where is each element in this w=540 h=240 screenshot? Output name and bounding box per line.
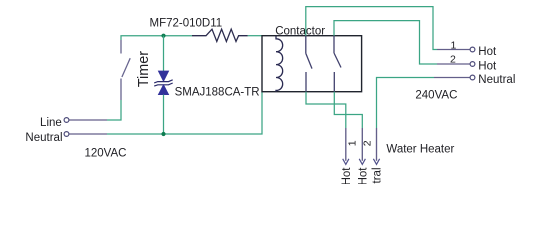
wire: pole2 top to Hot 2 (green)	[334, 21, 437, 64]
terminal circle: Hot 1	[470, 47, 475, 52]
TVS diode D1: lower cathode bar	[154, 83, 173, 86]
svg-text:Neutral: Neutral	[372, 168, 384, 185]
wire: Line terminal stub (purple)	[69, 119, 107, 121]
wire: WH neutral stub (purple)	[376, 128, 378, 161]
svg-text:Neutral: Neutral	[478, 74, 515, 86]
wire: Neutral240 terminal stub (purple)	[434, 77, 470, 79]
arrow: WH neutral	[373, 159, 379, 165]
wire: Neutral rail (green)	[107, 92, 262, 134]
wire: WH hot1 stub (purple)	[345, 128, 347, 161]
svg-text:Hot: Hot	[478, 46, 497, 58]
svg-text:Neutral: Neutral	[25, 132, 62, 144]
svg-text:Water Heater: Water Heater	[386, 144, 454, 156]
contactor K1: body box	[262, 36, 362, 92]
svg-text:1: 1	[346, 140, 358, 146]
terminal circle: Neutral	[64, 132, 69, 137]
svg-text:Hot: Hot	[478, 60, 497, 72]
svg-text:MF72-010D11: MF72-010D11	[150, 18, 223, 30]
junction dot: neutral rail / TVS	[161, 132, 165, 136]
junction dot: top rail / TVS	[161, 34, 165, 38]
arrow: WH hot1	[343, 159, 349, 165]
wire: Neutral terminal stub (purple)	[69, 133, 107, 135]
svg-text:120VAC: 120VAC	[85, 147, 127, 159]
wire: WH hot2 stub (purple)	[361, 128, 363, 161]
TVS diode D1: upper cathode bar	[154, 80, 173, 83]
svg-text:240VAC: 240VAC	[415, 90, 457, 102]
wire: top rail from timer to resistor (green)	[121, 36, 192, 40]
TVS diode D1 SMAJ188CA-TR: top triangle	[158, 71, 168, 81]
TVS diode D1: bottom triangle	[158, 85, 168, 95]
contactor K1: switch pole 2	[334, 36, 341, 92]
svg-text:Line: Line	[40, 117, 62, 129]
wire: 240V neutral (green)	[377, 78, 435, 129]
resistor R1 MF72-010D11 zigzag	[192, 29, 248, 41]
wire: pole1 top to Hot 1 (green)	[306, 7, 437, 50]
svg-text:SMAJ188CA-TR: SMAJ188CA-TR	[175, 87, 260, 99]
wire: TVS branch bottom (green)	[163, 95, 165, 134]
wire: TVS branch top (green)	[163, 36, 165, 71]
svg-text:Timer: Timer	[136, 51, 152, 87]
terminal circle: Hot 2	[470, 62, 475, 67]
terminal circle: Line	[64, 118, 69, 123]
switch SW1 Timer: bottom stub (purple)	[121, 58, 130, 100]
wire: resistor to contactor (green)	[248, 35, 262, 37]
arrow: WH hot2	[359, 159, 365, 165]
svg-text:1: 1	[451, 39, 457, 51]
svg-text:2: 2	[361, 140, 373, 146]
contactor K1: switch pole 1	[306, 36, 312, 92]
terminal circle: Neutral 240	[470, 75, 475, 80]
contactor K1: coil	[276, 36, 283, 92]
wire: Hot2 terminal stub (purple)	[437, 63, 470, 65]
svg-text:2: 2	[450, 54, 456, 66]
wire: Hot1 terminal stub (purple)	[437, 49, 470, 51]
svg-text:Hot: Hot	[358, 167, 370, 184]
svg-text:Hot: Hot	[341, 167, 353, 184]
wire: pole2 bottom to water heater hot2 (green)	[334, 92, 362, 128]
wire: pole1 bottom to water heater hot1 (green)	[306, 92, 346, 128]
switch SW1 Timer: top stub (purple)	[120, 40, 122, 54]
wire: Line to timer switch (green)	[107, 100, 121, 120]
